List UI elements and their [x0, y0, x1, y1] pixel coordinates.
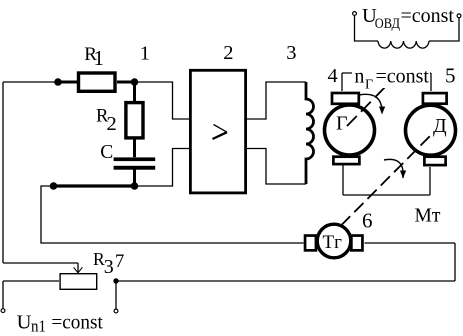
wire top-left horizontal to R1 [3, 81, 79, 83]
label n_Г=const background [352, 71, 430, 88]
wire junction to right terminal [115, 281, 117, 309]
shaft dashed line Тг to Д [341, 134, 433, 226]
generator Г circle [325, 105, 375, 155]
wire Г top brush to bus [341, 73, 343, 91]
svg-text:3: 3 [104, 256, 114, 278]
svg-text:4: 4 [328, 65, 338, 87]
svg-text:Г: Г [365, 78, 373, 93]
svg-text:3: 3 [286, 42, 296, 64]
wire Тг right to right bus [365, 242, 456, 244]
potentiometer R3 [60, 274, 97, 290]
brush box Г top [332, 93, 359, 104]
wire thick summing bar [53, 184, 135, 187]
svg-text:=const: =const [51, 312, 103, 334]
svg-text:7: 7 [115, 252, 124, 272]
wire armature bottom run Г to Д [343, 194, 430, 196]
svg-text:1: 1 [94, 46, 105, 70]
svg-text:2: 2 [223, 42, 233, 64]
wire Д top brush to bus [430, 73, 432, 91]
node dot left of R1 [54, 78, 62, 86]
svg-text:Мт: Мт [415, 206, 441, 227]
svg-text:1: 1 [140, 43, 150, 65]
wire Г bottom brush down [342, 165, 344, 195]
wire ОВД right [429, 18, 459, 41]
wire lead C to bottom node [133, 169, 136, 186]
motor Д circle [406, 105, 456, 155]
capacitor C bottom plate [114, 166, 156, 170]
wire Д bottom brush down [429, 167, 431, 195]
wire left terminal vertical [2, 281, 4, 308]
svg-text:n1: n1 [31, 317, 46, 336]
wire node 1 to amplifier top input [135, 82, 191, 119]
svg-text:n: n [354, 65, 364, 87]
rotation arrow at Д [384, 159, 403, 178]
op-amp U (amplifier block 2) [190, 70, 245, 193]
brush box Д top [423, 93, 447, 104]
capacitor C top plate [114, 157, 156, 161]
inductor winding 3 (generator field) [306, 82, 314, 184]
wire ОВД left [355, 16, 379, 41]
svg-text:C: C [100, 142, 113, 163]
shaft dashed line through Г [347, 80, 392, 126]
terminal circle ОВД left [353, 12, 357, 16]
resistor R1 [79, 73, 116, 91]
amplifier symbol > [214, 125, 228, 133]
wiper arrow [77, 263, 79, 272]
wire amplifier top output to winding 3 [247, 82, 306, 119]
tachogenerator brush left [305, 236, 316, 251]
wire lead R1 to node 1 [117, 81, 135, 84]
node dot right of R3 [113, 278, 118, 283]
node 1 junction dot [131, 78, 139, 86]
terminal circle right of U source [114, 309, 118, 313]
brush box Г bottom [333, 157, 359, 164]
tachogenerator Тг circle [317, 224, 351, 258]
wiper feed horizontal [3, 262, 78, 264]
wire armature top run Г to Д [342, 72, 431, 74]
wire thick lead dot to R1 [58, 81, 79, 84]
terminal circle left of U source [1, 309, 5, 313]
inductor winding ОВД (motor field) [378, 41, 429, 48]
resistor R2 [126, 103, 143, 138]
node dot bottom left [50, 182, 58, 190]
svg-text:Г: Г [336, 113, 348, 135]
terminal circle ОВД right [457, 14, 461, 18]
wire amplifier bottom output to winding 3 [247, 149, 306, 185]
wire lead node1 to R2 [133, 82, 136, 101]
svg-text:Тг: Тг [323, 232, 343, 253]
svg-text:6: 6 [362, 209, 373, 233]
wire bottom node to amplifier lower input [135, 149, 191, 187]
svg-text:U: U [17, 312, 32, 334]
brush box Д bottom [424, 157, 445, 165]
svg-text:=const: =const [401, 5, 455, 27]
wire left vertical feedback bus [2, 82, 4, 263]
wire R3 left [3, 280, 59, 282]
svg-text:2: 2 [107, 113, 117, 135]
wire lead R2 to C [133, 138, 136, 158]
tachogenerator brush right [351, 236, 362, 251]
wire bottom bus horizontal [116, 280, 455, 282]
svg-text:=const: =const [376, 65, 430, 87]
svg-text:ОВД: ОВД [375, 16, 400, 32]
node dot below C [131, 182, 139, 190]
wire summing bar to tachogenerator (left run) [41, 186, 304, 243]
svg-text:5: 5 [445, 64, 456, 88]
wire right bus vertical [454, 243, 456, 281]
svg-text:Д: Д [433, 115, 447, 137]
rotation arrow at Г [359, 94, 382, 112]
